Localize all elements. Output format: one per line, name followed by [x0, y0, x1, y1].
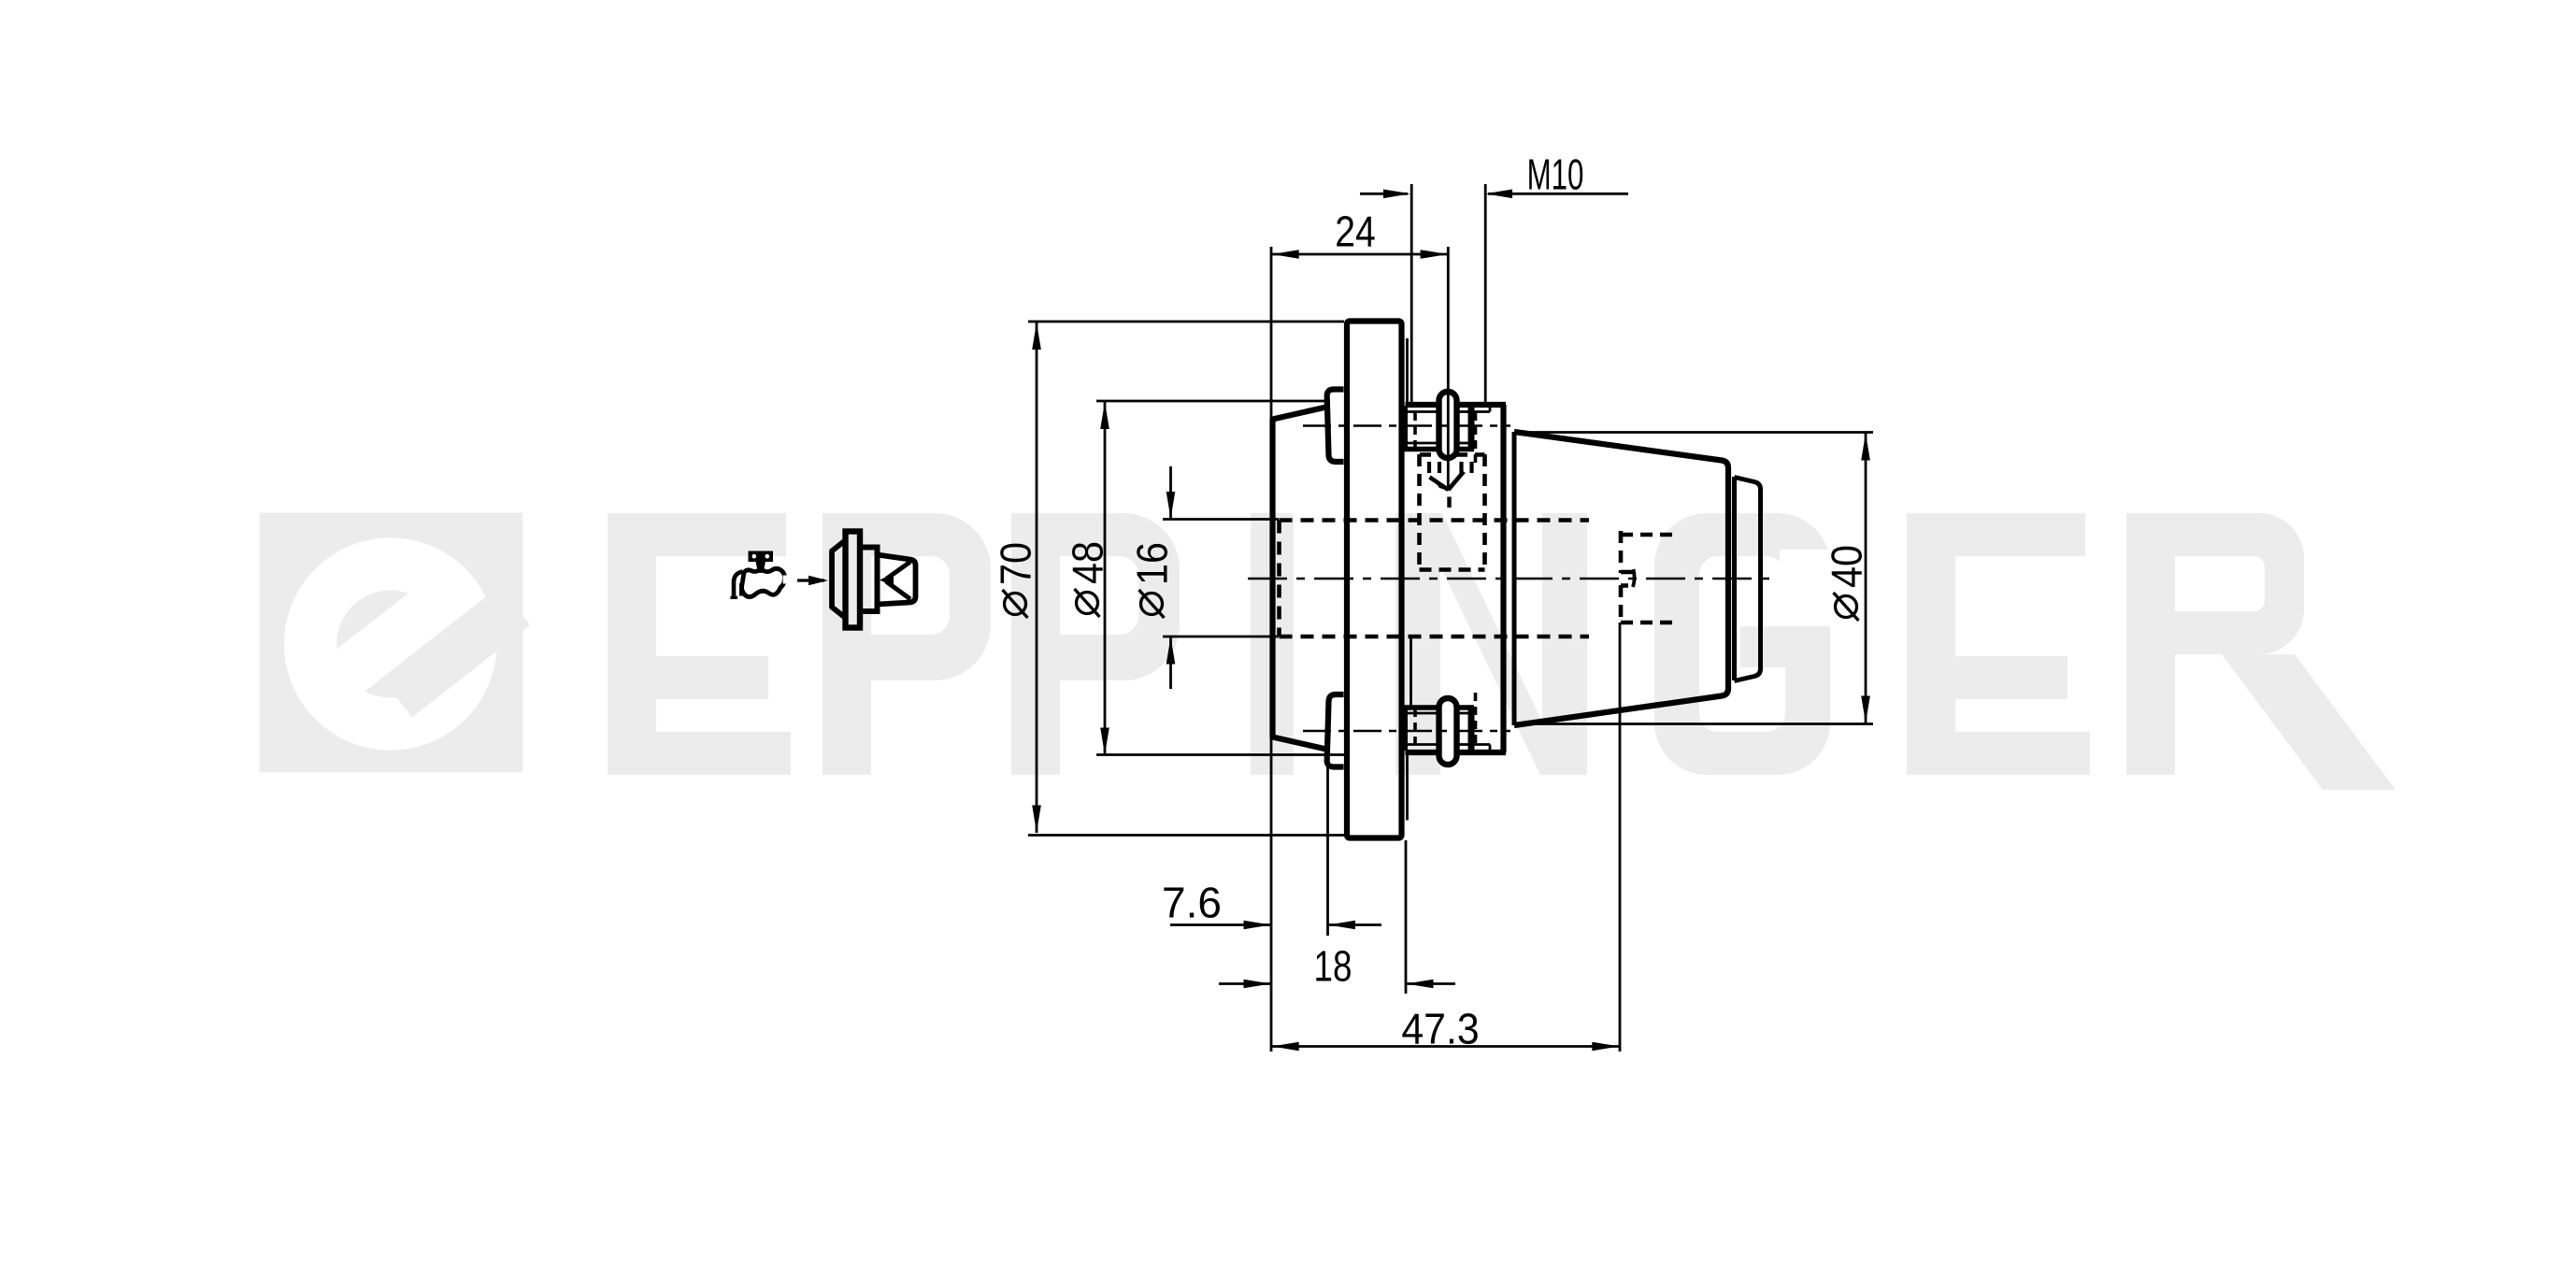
cone base face: [1512, 432, 1517, 725]
svg-text:7.6: 7.6: [1162, 879, 1222, 927]
set screw slot top: [1439, 392, 1457, 458]
label dia48: [1064, 541, 1112, 617]
dimension 18 extension line: [1405, 840, 1408, 994]
dimension 18 line: [1219, 982, 1270, 985]
dimension dia70 extension lines: [1028, 321, 1344, 323]
label M10: [1527, 151, 1584, 199]
svg-text:70: 70: [992, 542, 1040, 585]
nose base face: [1732, 477, 1737, 680]
dimension dia48 extension lines: [1096, 400, 1328, 403]
watermark letter E: [608, 513, 791, 775]
coolant flow arrow in hole: [1430, 478, 1449, 491]
nose outline: [1735, 478, 1761, 681]
hub bottom edge: [1406, 750, 1507, 755]
threaded coolant hole hidden: [1420, 454, 1485, 571]
watermark letter R: [2126, 513, 2304, 775]
hub step at screw bottom: [1489, 745, 1492, 753]
label dia70: [992, 542, 1040, 618]
label 7.6: [1162, 879, 1222, 927]
dimension dia40 line: [1865, 433, 1868, 723]
flange chamfer line bottom: [1406, 752, 1409, 821]
dimension 47.3 extension right: [1619, 623, 1622, 1052]
dimension M10 line: [1360, 193, 1408, 195]
coolant tap icon handle: [749, 551, 774, 570]
dimension 47.3 line: [1271, 1045, 1620, 1048]
set screw slot bottom: [1439, 698, 1457, 765]
lower clamping jaw: [1327, 694, 1344, 767]
hub step at screw top: [1489, 405, 1492, 412]
watermark letter P: [1011, 513, 1180, 775]
dimension 24 line: [1271, 253, 1448, 256]
inner bore hidden outline in cone: [1619, 531, 1624, 573]
hub right face: [1500, 405, 1506, 752]
svg-text:47.3: 47.3: [1401, 1006, 1479, 1053]
label dia16: [1128, 542, 1177, 618]
svg-text:24: 24: [1335, 208, 1375, 257]
dimension dia16 line: [1169, 466, 1172, 520]
dimension dia48 line: [1104, 402, 1107, 756]
flange chamfer line top: [1406, 338, 1409, 405]
label 18: [1314, 942, 1352, 991]
upper hole centerline over: [1303, 424, 1510, 427]
watermark letter I: [1251, 513, 1294, 775]
label 47.3: [1401, 1006, 1479, 1053]
label dia40: [1823, 545, 1871, 621]
counterbore wall hidden: [1410, 637, 1412, 708]
label 24: [1335, 208, 1375, 257]
dimension 24 extension line: [1447, 247, 1450, 488]
coolant tap icon body: [742, 568, 785, 596]
cone outline: [1514, 432, 1728, 725]
dimension main left extension: [1270, 247, 1273, 1052]
dimension M10 extension lines: [1410, 184, 1413, 402]
svg-text:18: 18: [1314, 942, 1352, 991]
svg-text:48: 48: [1064, 541, 1112, 584]
flange: [1347, 322, 1402, 838]
M10 set screw top: [1403, 406, 1476, 464]
svg-text:16: 16: [1128, 542, 1177, 585]
M10 set screw bottom: [1403, 693, 1476, 751]
watermark letter N: [1395, 513, 1587, 775]
dimension 7.6 line: [1170, 923, 1270, 926]
upper clamping jaw: [1327, 390, 1344, 463]
svg-text:M10: M10: [1527, 151, 1584, 199]
watermark letter P: [823, 513, 991, 775]
coolant flow arrow: [797, 579, 824, 581]
svg-text:40: 40: [1823, 545, 1871, 588]
dimension dia16 extension lines: [1163, 518, 1279, 521]
bore hidden left wall: [1277, 521, 1281, 637]
dimension dia40 extension lines: [1519, 431, 1873, 434]
main centerline: [1248, 578, 1769, 580]
hub top edge: [1406, 402, 1507, 408]
watermark logo square: [260, 513, 523, 773]
collet body outline: [1273, 408, 1327, 750]
coolant mini part icon: [832, 532, 916, 628]
watermark letter E: [1907, 513, 2090, 775]
watermark letter G: [1654, 513, 1830, 775]
bore hidden line bottom: [1280, 635, 1590, 639]
lower hole centerline over: [1303, 730, 1510, 733]
dimension 7.6 extension line: [1326, 765, 1329, 936]
dimension dia70 line: [1036, 322, 1038, 834]
bore hidden line top: [1280, 518, 1590, 522]
